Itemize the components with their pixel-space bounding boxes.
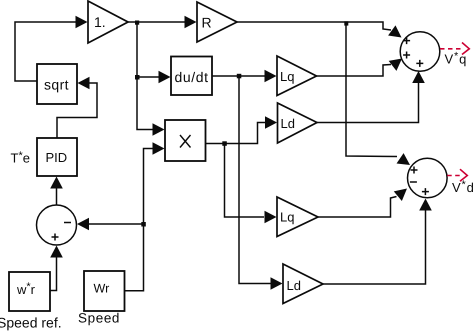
gain block Lq2 bbox=[277, 197, 318, 237]
arrowhead into sqrt (pointing left) bbox=[78, 77, 90, 90]
junction on X output bbox=[222, 141, 227, 146]
arrowhead into sum1 right bbox=[77, 218, 89, 231]
wire X output to Ld1 input bbox=[206, 123, 267, 144]
gain block Ld2 bbox=[283, 264, 323, 304]
arrowhead into sum Vq left-lower (diagonal) bbox=[389, 54, 406, 71]
wire Wr output up to X input 2 with tee to sum1 bbox=[125, 149, 155, 291]
junction after gain 1. bbox=[135, 21, 139, 25]
arrowhead into sum Vd top (diagonal) bbox=[397, 153, 414, 170]
arrowhead into Ld1 bbox=[265, 116, 277, 129]
arrowhead into sum Vd left-lower (diagonal) bbox=[394, 184, 411, 201]
gain block Lq1 bbox=[277, 56, 317, 96]
derivative block du/dt bbox=[171, 57, 212, 96]
wire Ld1 output up to sum Vq bottom input bbox=[317, 82, 419, 123]
svg-text:Ld: Ld bbox=[287, 278, 301, 293]
gain block R bbox=[197, 2, 237, 42]
arrowhead into sum1 bottom bbox=[50, 246, 63, 258]
wire W*r output to sum1 bottom input bbox=[50, 256, 57, 291]
junction at du/dt tee bbox=[135, 75, 140, 80]
speed reference block W*r bbox=[9, 272, 50, 311]
arrowhead into Lq1 bbox=[265, 70, 277, 83]
output arrow V*d (red dashed) bbox=[447, 169, 467, 181]
sum block Vq bbox=[400, 32, 440, 72]
PID block bbox=[37, 138, 77, 176]
gain block 1. bbox=[88, 1, 128, 43]
arrowhead into sum Vd bottom bbox=[419, 199, 432, 211]
arrowhead into Lq2 bbox=[265, 211, 277, 224]
wire du/dt branch down to Ld2 input bbox=[239, 76, 272, 284]
wire Ld2 output up to sum Vd bottom input bbox=[323, 210, 426, 284]
arrowhead into sum Vq top (diagonal) bbox=[388, 25, 405, 42]
wire Lq2 output to sum Vd second input bbox=[318, 197, 397, 218]
svg-text:Ld: Ld bbox=[281, 116, 295, 131]
wire Lq1 output to sum Vq second input bbox=[317, 65, 392, 77]
wire PID output to sqrt input bbox=[57, 83, 97, 138]
arrowhead into du/dt bbox=[159, 71, 171, 84]
wire R branch down to sum Vd top input bbox=[346, 22, 397, 157]
svg-text:Speed ref.: Speed ref. bbox=[0, 315, 62, 331]
wire from junction down to du/dt and X bbox=[137, 22, 154, 130]
arrowhead into sum Vq bottom bbox=[412, 71, 425, 83]
arrowhead into X input 1 bbox=[153, 123, 165, 136]
wire gain 1. output to R input bbox=[128, 21, 186, 23]
svg-text:PID: PID bbox=[46, 150, 68, 165]
svg-text:Wr: Wr bbox=[94, 282, 110, 296]
wire du/dt output to Lq1 input bbox=[212, 75, 266, 77]
arrowhead into gain 1. bbox=[76, 16, 88, 29]
output arrow V*q (red dashed) bbox=[440, 43, 469, 55]
arrowhead into R bbox=[185, 16, 197, 29]
arrowhead into Ld2 bbox=[271, 277, 283, 290]
sum block speed error bbox=[37, 205, 77, 245]
svg-text:Speed: Speed bbox=[78, 311, 120, 326]
svg-text:1.: 1. bbox=[94, 14, 106, 30]
wire X output branch down to Lq2 input bbox=[225, 144, 265, 218]
wire sqrt output to gain 1. input bbox=[15, 22, 77, 81]
wire sum1 output to PID input bbox=[56, 188, 58, 205]
gain block Ld1 bbox=[278, 103, 318, 143]
tee wire into du/dt bbox=[137, 76, 160, 78]
junction on Wr riser bbox=[141, 222, 146, 227]
junction on R output bbox=[344, 21, 348, 25]
arrowhead into X input 2 bbox=[153, 142, 165, 155]
speed feedback block Wr bbox=[84, 271, 125, 311]
sum block Vd bbox=[408, 158, 448, 198]
junction on du/dt output bbox=[237, 74, 242, 79]
svg-text:R: R bbox=[202, 15, 212, 31]
product block X bbox=[165, 120, 206, 161]
svg-text:Lq: Lq bbox=[280, 69, 294, 84]
svg-text:Lq: Lq bbox=[280, 210, 294, 225]
wire Wr feedback into sum1 minus input bbox=[88, 223, 144, 225]
sqrt block bbox=[37, 64, 77, 104]
svg-text:w*r: w*r bbox=[16, 281, 36, 297]
wire R output to sum Vq top input bbox=[237, 22, 391, 30]
svg-text:sqrt: sqrt bbox=[44, 77, 69, 93]
arrowhead into PID bottom bbox=[50, 177, 63, 189]
svg-text:du/dt: du/dt bbox=[175, 69, 209, 85]
